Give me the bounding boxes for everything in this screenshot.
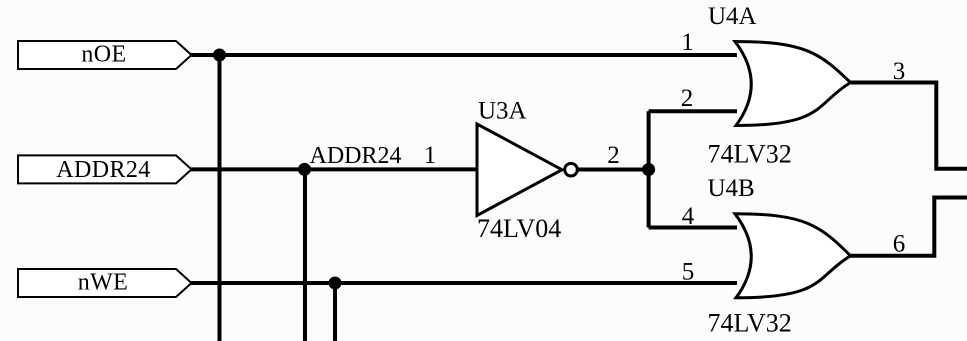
svg-text:U4A: U4A [708,3,757,30]
svg-text:2: 2 [681,85,694,112]
svg-text:5: 5 [682,258,695,285]
svg-text:nOE: nOE [81,42,126,68]
svg-text:6: 6 [893,231,906,258]
svg-text:74LV32: 74LV32 [708,140,792,169]
svg-text:74LV32: 74LV32 [708,309,792,338]
svg-text:2: 2 [607,142,620,169]
svg-text:3: 3 [893,58,906,85]
svg-text:ADDR24: ADDR24 [310,143,402,169]
svg-text:U3A: U3A [478,98,527,125]
svg-text:nWE: nWE [78,270,129,296]
svg-text:U4B: U4B [708,175,755,202]
svg-text:1: 1 [681,29,694,56]
svg-text:ADDR24: ADDR24 [56,157,150,183]
svg-text:74LV04: 74LV04 [477,214,561,243]
svg-text:1: 1 [424,142,437,169]
svg-text:4: 4 [682,203,695,230]
